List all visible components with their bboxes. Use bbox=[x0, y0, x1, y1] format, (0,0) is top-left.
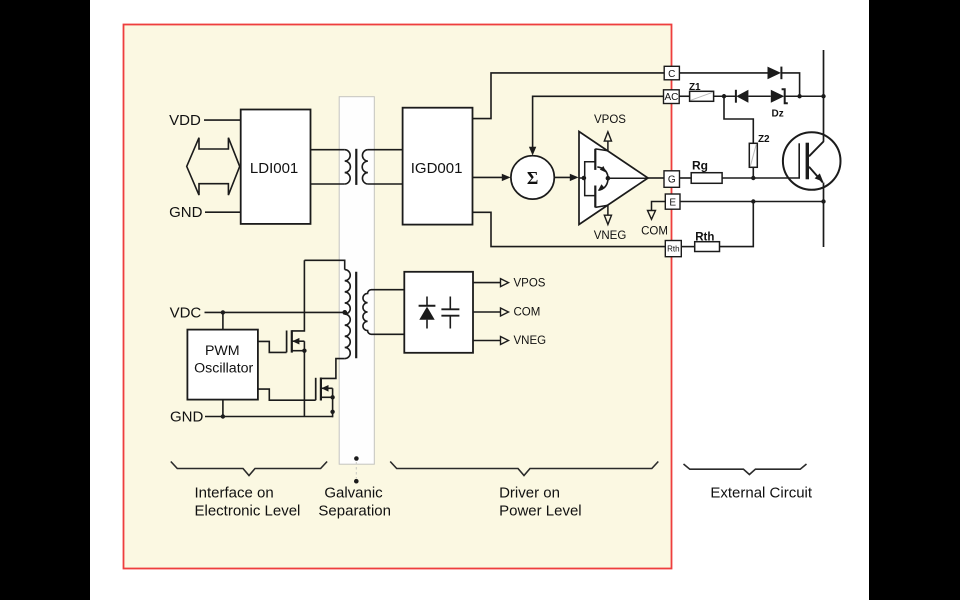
summing junction bbox=[511, 156, 554, 199]
svg-text:Galvanic: Galvanic bbox=[324, 485, 383, 502]
terminal AC bbox=[664, 90, 680, 104]
block LDI001 bbox=[241, 110, 311, 224]
svg-text:Dz: Dz bbox=[771, 109, 783, 120]
wire terminal E to emitter rail bbox=[680, 201, 824, 203]
svg-text:GND: GND bbox=[169, 204, 203, 221]
transformer T1 core bbox=[355, 149, 357, 185]
junction dot Q3 source bbox=[302, 349, 306, 353]
mosfet Q3 source stub bbox=[292, 350, 305, 352]
resistor Rth bbox=[695, 232, 720, 252]
transistor QL collector diagonal bbox=[595, 205, 608, 207]
svg-text:G: G bbox=[668, 175, 676, 186]
label driver on power level bbox=[499, 485, 582, 520]
svg-text:VDD: VDD bbox=[169, 112, 201, 129]
junction dot emitter on E line bbox=[821, 199, 825, 203]
svg-text:Rth: Rth bbox=[667, 245, 679, 254]
svg-text:Electronic Level: Electronic Level bbox=[195, 503, 301, 520]
output VPOS bbox=[473, 277, 546, 289]
terminal G bbox=[664, 171, 680, 188]
wire PWM to Q3 gate bbox=[258, 341, 287, 352]
zener diode Dz bbox=[771, 89, 788, 119]
output VNEG bbox=[473, 335, 546, 347]
brace external section bbox=[684, 464, 807, 475]
rectifier diode symbol bbox=[419, 297, 436, 329]
galvanic separation strip bbox=[339, 97, 374, 465]
mosfet Q4 gate bar bbox=[315, 378, 317, 400]
mosfet Q4 body arrow bbox=[321, 385, 333, 397]
resistor Rg bbox=[691, 159, 722, 184]
svg-text:GND: GND bbox=[170, 408, 204, 425]
wire T1 secondary top to IGD001 bbox=[368, 149, 403, 151]
wire IGD001 to terminal C bbox=[473, 73, 665, 119]
resistor Z1 bbox=[689, 82, 714, 101]
COM reference stub bbox=[641, 202, 668, 238]
junction dot Q4 source bbox=[330, 395, 334, 399]
wire PWM to Q4 gate bbox=[258, 389, 316, 400]
svg-text:C: C bbox=[668, 69, 675, 80]
wire PWM bottom stub bbox=[222, 400, 224, 417]
wire IGD001 to summing node bbox=[473, 176, 504, 178]
terminal E bbox=[665, 194, 680, 209]
wire diode Dc to AC net bbox=[781, 73, 799, 96]
wire GND rail bbox=[205, 416, 333, 418]
wire Q4 source to GND bbox=[332, 397, 334, 417]
amp input bracket bbox=[585, 162, 595, 196]
svg-text:Z1: Z1 bbox=[689, 82, 701, 93]
wire VDD to LDI001 bbox=[204, 119, 241, 121]
rectifier capacitor symbol bbox=[441, 297, 459, 329]
resistor Z2 bbox=[749, 134, 770, 167]
junction dot Z2 on gate line bbox=[751, 176, 755, 180]
svg-text:IGD001: IGD001 bbox=[411, 160, 463, 177]
svg-text:Z2: Z2 bbox=[758, 134, 770, 145]
diode Dc bbox=[768, 67, 782, 80]
arrowhead into summing node bbox=[502, 174, 511, 181]
mosfet Q3 drain stub bbox=[292, 260, 305, 331]
svg-text:Rg: Rg bbox=[692, 159, 708, 173]
transistor QL base bar bbox=[594, 186, 596, 208]
transistor QL emitter arrowhead bbox=[598, 184, 605, 191]
wire Rg to IGBT gate bbox=[722, 177, 800, 179]
wire D1 to Dz bbox=[748, 95, 770, 97]
wire summing node to amplifier bbox=[554, 176, 570, 178]
left black sidebar bbox=[0, 0, 90, 600]
transformer T1 primary winding bbox=[345, 150, 351, 184]
svg-text:AC: AC bbox=[664, 92, 678, 103]
transformer T1 secondary winding bbox=[362, 150, 368, 184]
wire terminal G to resistor Rg bbox=[680, 177, 692, 179]
svg-text:VPOS: VPOS bbox=[594, 114, 626, 126]
rectifier block bbox=[404, 272, 473, 353]
svg-text:Power Level: Power Level bbox=[499, 503, 582, 520]
diode D1 (left pointing) bbox=[736, 90, 749, 103]
wire Z2 to gate line bbox=[752, 167, 754, 178]
emitter rail vertical lower bbox=[823, 183, 825, 248]
red-bordered cream panel bbox=[124, 25, 672, 569]
bidirectional bus arrow bbox=[187, 138, 240, 195]
wire Z2 branch bbox=[724, 96, 753, 143]
wire terminal AC to summing node bbox=[533, 96, 664, 150]
svg-text:Σ: Σ bbox=[527, 168, 538, 188]
wire Rth up to E line bbox=[720, 202, 754, 247]
svg-text:VNEG: VNEG bbox=[594, 230, 627, 242]
transformer T2 primary winding bbox=[345, 270, 351, 359]
wire T2 primary top lead bbox=[304, 260, 344, 269]
junction dot AC net on collector rail bbox=[821, 94, 825, 98]
wire T2 primary bottom lead bbox=[321, 359, 345, 379]
wire PWM top stub bbox=[222, 312, 224, 329]
wire Q3 source to GND bbox=[303, 351, 305, 417]
right black sidebar bbox=[869, 0, 960, 600]
strip axis dot lower bbox=[354, 479, 359, 484]
output COM bbox=[473, 307, 540, 319]
op-amp buffer triangle bbox=[579, 132, 648, 225]
brace interface section bbox=[171, 462, 327, 476]
wire GND to LDI001 bbox=[205, 211, 241, 213]
wire LDI001 to T1 primary top bbox=[311, 149, 345, 151]
transistor QL emitter arc bbox=[599, 180, 608, 190]
T2 center tap dot bbox=[342, 310, 347, 315]
wire terminal C to diode Dc bbox=[679, 72, 767, 74]
mosfet Q3 channel bar bbox=[291, 330, 293, 352]
svg-text:COM: COM bbox=[514, 307, 541, 319]
node Z2 tap dot bbox=[722, 94, 726, 98]
label galvanic separation bbox=[318, 485, 391, 520]
wire Z1 to diode pair bbox=[714, 95, 736, 97]
block PWM oscillator bbox=[187, 330, 258, 400]
arrowhead into amplifier bbox=[570, 174, 579, 181]
wire IGD001 to terminal Rth bbox=[473, 212, 666, 246]
collector rail vertical upper bbox=[823, 50, 825, 142]
svg-text:Rth: Rth bbox=[695, 232, 714, 244]
strip axis dashed line bbox=[355, 462, 357, 478]
transistor QH base bar bbox=[594, 149, 596, 170]
svg-text:VPOS: VPOS bbox=[514, 277, 546, 289]
VPOS supply stub on amp bbox=[594, 114, 626, 151]
transistor QH collector diagonal bbox=[595, 149, 608, 151]
wire Dz to collector rail bbox=[785, 95, 824, 97]
block IGD001 bbox=[403, 108, 473, 225]
brace driver section bbox=[390, 462, 658, 476]
svg-text:Oscillator: Oscillator bbox=[194, 360, 253, 376]
wire amp output to terminal G bbox=[648, 177, 664, 179]
svg-text:COM: COM bbox=[641, 226, 668, 238]
svg-text:Separation: Separation bbox=[318, 503, 391, 520]
wire LDI001 to T1 primary bottom bbox=[311, 183, 345, 185]
svg-text:External Circuit: External Circuit bbox=[710, 485, 813, 502]
junction dot VDC to PWM bbox=[221, 310, 225, 314]
wire T1 secondary bottom to IGD001 bbox=[368, 183, 403, 185]
label interface on electronic level bbox=[195, 485, 301, 520]
svg-text:VNEG: VNEG bbox=[514, 335, 547, 347]
amp mid node dot bbox=[606, 176, 611, 181]
svg-text:Interface on: Interface on bbox=[195, 485, 274, 502]
amp input node bbox=[579, 176, 586, 181]
wire terminal AC to resistor Z1 bbox=[679, 95, 689, 97]
amp output line bbox=[608, 177, 648, 179]
wire VDC to T2 center tap bbox=[205, 311, 345, 313]
svg-text:VDC: VDC bbox=[170, 304, 202, 321]
junction dot Rth branch on E line bbox=[751, 199, 755, 203]
terminal Rth bbox=[665, 241, 681, 257]
mosfet Q3 body arrow bbox=[292, 338, 305, 351]
junction dot C-drop on AC net bbox=[797, 94, 801, 98]
svg-text:LDI001: LDI001 bbox=[250, 160, 298, 177]
wire terminal Rth to resistor Rth bbox=[681, 246, 694, 248]
IGBT Q1 bbox=[783, 132, 841, 190]
mosfet Q4 channel bar bbox=[320, 378, 322, 401]
junction dot Q4 source rail bbox=[330, 410, 334, 414]
transistor QH emitter arrowhead bbox=[600, 166, 607, 173]
junction dot PWM on GND bbox=[221, 414, 225, 418]
svg-text:PWM: PWM bbox=[205, 343, 240, 359]
mosfet Q3 gate bar bbox=[286, 331, 288, 353]
VNEG supply stub on amp bbox=[594, 205, 627, 242]
arrowhead into summing node top bbox=[529, 147, 536, 156]
svg-text:Driver on: Driver on bbox=[499, 485, 560, 502]
svg-text:E: E bbox=[669, 197, 676, 208]
terminal C bbox=[664, 66, 679, 80]
transistor QH emitter arc bbox=[597, 167, 608, 177]
mosfet Q4 source stub bbox=[321, 396, 333, 398]
transformer T2 core bbox=[355, 272, 357, 358]
strip axis dot upper bbox=[354, 456, 359, 461]
transformer T2 secondary winding bbox=[363, 290, 404, 335]
